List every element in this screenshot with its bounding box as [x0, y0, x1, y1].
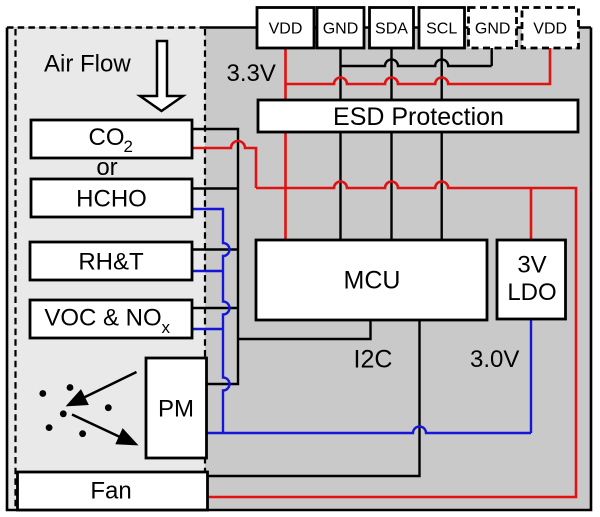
svg-text:VDD: VDD: [533, 21, 567, 38]
svg-text:3V: 3V: [517, 252, 546, 279]
svg-text:LDO: LDO: [507, 279, 556, 306]
svg-text:Air Flow: Air Flow: [44, 51, 131, 78]
svg-text:or: or: [96, 154, 117, 181]
svg-text:3.3V: 3.3V: [227, 60, 276, 87]
svg-text:RH&T: RH&T: [78, 249, 144, 276]
svg-text:VOC & NO: VOC & NO: [44, 305, 161, 332]
svg-text:SCL: SCL: [426, 21, 457, 38]
svg-text:I2C: I2C: [354, 346, 393, 374]
svg-text:3.0V: 3.0V: [470, 346, 519, 373]
svg-text:VDD: VDD: [269, 21, 303, 38]
svg-text:x: x: [162, 318, 171, 337]
svg-text:CO: CO: [89, 124, 125, 151]
svg-text:2: 2: [124, 137, 133, 156]
svg-text:Fan: Fan: [90, 478, 131, 505]
svg-text:GND: GND: [323, 21, 359, 38]
svg-text:MCU: MCU: [344, 267, 401, 295]
svg-text:PM: PM: [158, 396, 194, 423]
svg-text:SDA: SDA: [375, 21, 408, 38]
svg-text:HCHO: HCHO: [76, 186, 147, 213]
svg-text:GND: GND: [475, 21, 511, 38]
svg-text:ESD Protection: ESD Protection: [333, 103, 504, 131]
